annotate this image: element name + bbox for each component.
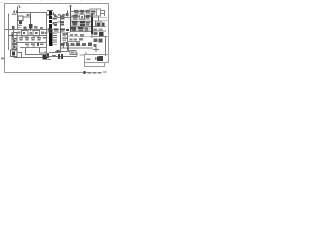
- wire y41.5 right: [68, 42, 86, 46]
- wire vert x91 dark: [91, 14, 93, 34]
- grid wires right-center: [71, 17, 92, 32]
- capacitor C3 box: [12, 39, 17, 44]
- resistor R4: [47, 53, 49, 58]
- node J1 stub: [30, 13, 32, 17]
- wire vert x70: [70, 6, 72, 32]
- wire row3 horizontal: [16, 42, 47, 44]
- capacitor C11: [99, 56, 104, 59]
- resistor R13: [94, 44, 97, 47]
- wire cross: [93, 47, 99, 52]
- component row CR3: [25, 43, 43, 47]
- resistor R12: [99, 32, 104, 36]
- tube block backdrop: [71, 15, 91, 33]
- label row L1: [27, 13, 69, 16]
- resistor R7: [60, 21, 64, 25]
- capacitor C1: [12, 10, 17, 14]
- wire vert x63: [63, 42, 65, 48]
- wire mid horizontal: [5, 29, 47, 31]
- capacitor C2: [12, 26, 15, 29]
- terminal B-: [1, 57, 4, 59]
- diode D1: [67, 46, 69, 52]
- wire center vertical: [46, 12, 48, 57]
- transformer T1: [18, 13, 31, 30]
- wire relay to border: [99, 10, 105, 21]
- resistor R9: [62, 38, 67, 41]
- wire mid cluster: [57, 18, 71, 23]
- resistor R14: [56, 50, 59, 52]
- capacitor C9: [94, 39, 98, 42]
- capacitor C4 box: [12, 45, 17, 50]
- capacitor C8: [102, 22, 105, 26]
- antenna A1: [18, 6, 21, 13]
- relay K1 box: [90, 9, 101, 16]
- component row CR1: [18, 31, 47, 37]
- component row BR: [61, 42, 92, 46]
- speaker SP1: [11, 48, 18, 57]
- resistor R6: [54, 22, 57, 26]
- jack cluster J2: [58, 54, 63, 59]
- wire left bus: [8, 14, 10, 51]
- resistor row RR2: [70, 38, 84, 40]
- IF transformer T3 core: [49, 29, 52, 46]
- wire stub x39: [40, 48, 48, 54]
- caption text: [84, 71, 86, 74]
- sheet border frame (decorative): [5, 4, 109, 74]
- wire left col: [13, 30, 15, 51]
- resistor row RR1: [70, 34, 84, 36]
- transistor Q1: [18, 17, 44, 32]
- bus row dark: [48, 29, 70, 32]
- wire vert x67: [67, 32, 69, 48]
- transformer T2 (output): [43, 52, 48, 60]
- IF transformer T3 windings: [49, 11, 52, 29]
- tube V3 cluster: [71, 27, 88, 32]
- wire from T2: [47, 59, 51, 61]
- resistor R5: [52, 55, 56, 57]
- resistor R11: [94, 29, 103, 36]
- wire bottom L2: [26, 48, 49, 55]
- wire row2 horizontal: [9, 35, 48, 37]
- capacitor C7 box: [96, 21, 102, 27]
- capacitor C10: [99, 39, 103, 43]
- switch S1: [70, 51, 77, 57]
- top-right component row RC: [71, 10, 91, 15]
- component row CR2: [19, 37, 47, 41]
- right column wires: [93, 18, 108, 37]
- wire stub x67 top: [67, 11, 69, 17]
- resistor R8: [62, 33, 67, 36]
- capacitor C5: [54, 16, 58, 20]
- wire vert x105: [105, 37, 107, 57]
- wire under bus row: [47, 31, 70, 33]
- capacitor C6: [61, 16, 65, 20]
- title block: [85, 55, 109, 67]
- tube V1 cluster: [73, 15, 90, 20]
- wire into title block: [80, 54, 85, 56]
- pin row P1: [53, 33, 57, 44]
- wire top bus: [18, 12, 47, 14]
- wire row4 horizontal: [20, 47, 47, 49]
- resistor R10: [63, 42, 68, 44]
- choke L2 box: [12, 33, 18, 39]
- wire bottom right: [55, 48, 93, 52]
- tube V2 cluster: [72, 21, 89, 26]
- wire vert x60: [60, 15, 62, 53]
- wire speaker L: [14, 53, 45, 58]
- wire y36.5 right: [68, 36, 93, 38]
- wire bottom mid: [46, 53, 77, 57]
